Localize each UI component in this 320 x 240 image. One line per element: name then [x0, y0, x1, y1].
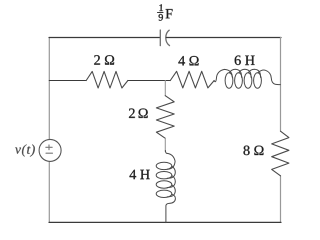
wire: top horizontal right of capacitor — [166, 37, 281, 39]
inductor L1 6 H (horizontal coil) — [214, 69, 280, 88]
wire: left vertical lower segment — [48, 162, 50, 223]
label v(t) — [15, 144, 35, 156]
wire: bottom horizontal — [49, 221, 281, 223]
resistor R4 8 ohm (vertical) — [272, 131, 289, 176]
label 2 ohm (R3) — [129, 109, 148, 118]
label 6 H (L1) — [235, 56, 255, 66]
wire: right vertical lower segment — [280, 176, 282, 223]
inductor L2 4 H (vertical coil) — [156, 151, 175, 223]
wire: right vertical upper segment — [280, 38, 282, 132]
label 4 H (L2) — [130, 170, 150, 179]
wire: between R3 and L2 — [164, 138, 166, 151]
wire: top horizontal left of capacitor — [49, 37, 160, 39]
label 1/9 F — [157, 4, 172, 20]
wire: left vertical upper segment — [48, 38, 50, 140]
label 2 ohm (R1) — [94, 55, 114, 64]
wire: node A down to R3 — [164, 81, 166, 96]
label 8 ohm (R4) — [244, 146, 264, 156]
voltage source v(t) — [39, 139, 61, 161]
resistor R2 4 ohm (horizontal) — [170, 71, 214, 88]
label 4 ohm (R2) — [178, 56, 198, 65]
capacitor C1 — [160, 30, 169, 46]
wire: between R1 and node A — [128, 80, 170, 82]
resistor R3 2 ohm (vertical) — [156, 96, 174, 139]
resistor R1 2 ohm (horizontal) — [86, 71, 128, 88]
wire: middle horizontal from left wire to R 2ohm — [49, 80, 86, 82]
